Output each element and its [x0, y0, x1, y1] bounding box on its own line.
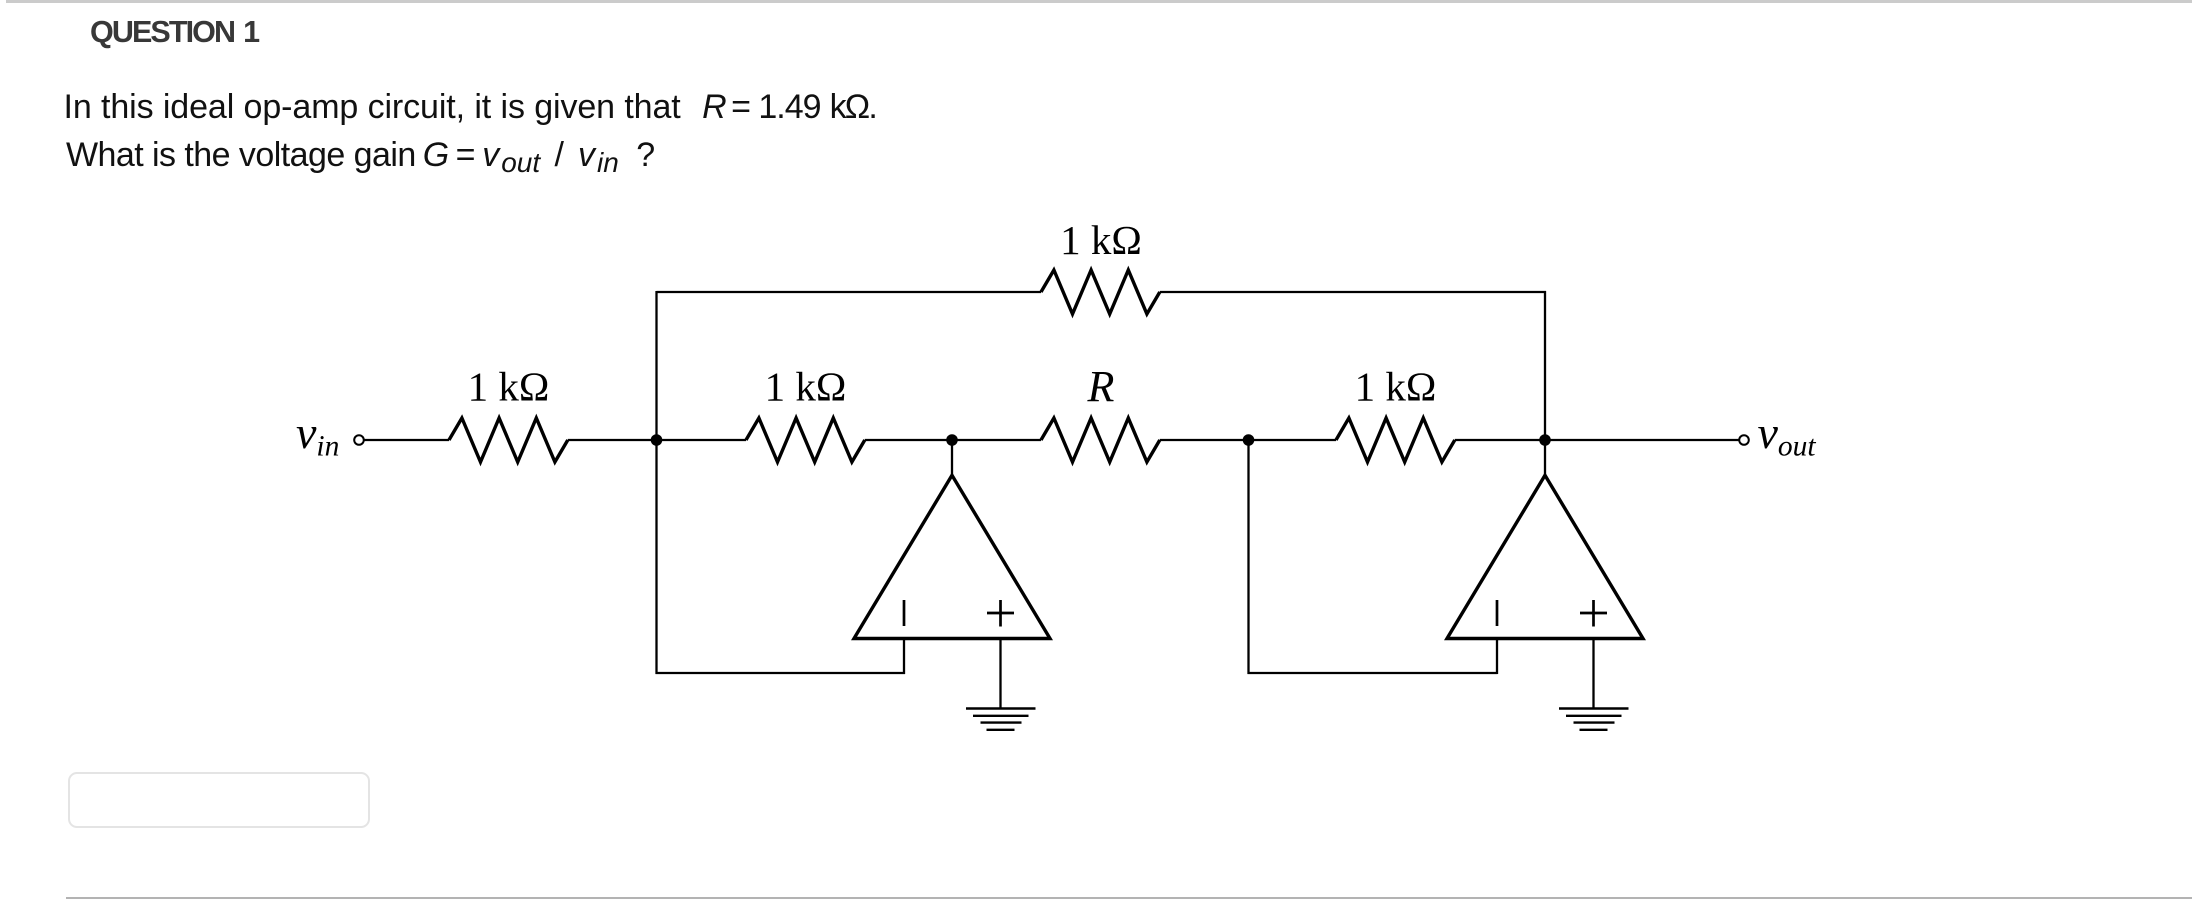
op-amp U1 noninverting pin wire	[999, 637, 1001, 709]
op-amp U1 minus mark	[903, 600, 906, 626]
wire R1 to R2	[568, 439, 746, 441]
svg-text:1 kΩ: 1 kΩ	[1355, 364, 1437, 410]
feedback top rail left segment	[657, 291, 1042, 293]
junction node C	[1243, 434, 1255, 446]
op-amp U1 plus mark	[987, 600, 1014, 627]
loop2 bottom wire	[1248, 672, 1498, 674]
loop1 riser to op-amp1 inverting pin	[903, 637, 905, 674]
op-amp U1 triangle	[854, 475, 1050, 638]
bottom separator line	[66, 897, 2192, 899]
loop2 riser to op-amp2 inverting pin	[1496, 637, 1498, 674]
terminal v_in	[354, 435, 364, 445]
right vertical wire from top rail	[1544, 291, 1546, 440]
resistor R2 1k	[746, 418, 865, 462]
wire vin to R1	[364, 439, 450, 441]
question body line 2	[66, 138, 655, 172]
ground G2	[1559, 709, 1629, 730]
svg-text:1 kΩ: 1 kΩ	[468, 364, 550, 410]
left vertical wire node A	[655, 291, 657, 674]
ground G1	[966, 709, 1036, 730]
resistor R4 1k	[1336, 418, 1455, 462]
op-amp U2 plus mark	[1580, 600, 1607, 627]
junction node D	[1539, 434, 1551, 446]
feedback top rail right segment	[1160, 291, 1546, 293]
op-amp U2 triangle	[1447, 475, 1643, 638]
resistor R1 1k	[449, 418, 568, 462]
resistor R3 (R)	[1041, 418, 1160, 462]
junction node B	[946, 434, 958, 446]
wire R3 to R4	[1160, 439, 1336, 441]
svg-text:1 kΩ: 1 kΩ	[1060, 217, 1142, 263]
op-amp U2 minus mark	[1496, 600, 1499, 626]
op-amp U2 noninverting pin wire	[1592, 637, 1594, 709]
svg-text:vin: vin	[296, 407, 339, 463]
junction node A	[651, 434, 663, 446]
stub op-amp1 apex	[951, 440, 953, 477]
terminal v_out	[1739, 435, 1749, 445]
wire R2 to R3	[865, 439, 1041, 441]
answer input box	[68, 772, 370, 828]
loop1 bottom wire	[656, 672, 906, 674]
wire R4 to vout	[1455, 439, 1740, 441]
resistor Rtop 1k	[1041, 270, 1160, 314]
svg-text:R: R	[1087, 362, 1115, 411]
svg-text:1 kΩ: 1 kΩ	[765, 364, 847, 410]
stub op-amp2 apex	[1544, 440, 1546, 477]
heading QUESTION 1	[90, 17, 258, 48]
question body line 1	[64, 90, 877, 124]
svg-text:vout: vout	[1758, 407, 1817, 463]
top gray separator bar	[6, 0, 2192, 3]
loop2 vertical from node C	[1247, 440, 1249, 674]
